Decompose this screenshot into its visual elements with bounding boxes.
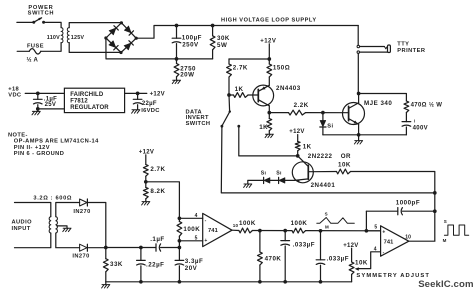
svg-text:5W: 5W <box>217 42 227 49</box>
transistor Q2 2N2222/2N4401 <box>292 162 313 183</box>
capacitor C9 .1uF 25V <box>34 98 43 100</box>
wire R3 leads <box>228 59 230 64</box>
node opamp input lower junction <box>178 246 182 250</box>
wire +12V drop to node <box>268 44 270 59</box>
svg-text:SYMMETRY ADJUST: SYMMETRY ADJUST <box>356 273 430 279</box>
transformer T1 primary winding <box>61 28 63 43</box>
op-amp U2 741 <box>381 226 409 256</box>
node HV rail at C1 <box>175 24 179 28</box>
wire bottom ground rail <box>106 281 352 283</box>
wire C5 leads <box>178 248 180 261</box>
node at C6 <box>283 229 287 233</box>
svg-text:Si: Si <box>327 123 333 129</box>
svg-text:PIN II- +12V: PIN II- +12V <box>14 145 50 151</box>
svg-text:100K: 100K <box>183 226 200 233</box>
bridge rectifier diamond wires <box>106 23 136 53</box>
wire center tap <box>57 226 67 228</box>
resistor R16 100K second <box>292 228 306 233</box>
node pin4 line junction <box>178 216 182 220</box>
node bridge top vertex <box>120 21 123 24</box>
wire HV rail top <box>177 25 359 27</box>
wire D9 to detector node <box>87 247 106 249</box>
svg-text:FAIRCHILD: FAIRCHILD <box>70 92 104 98</box>
node bias divider <box>144 180 148 184</box>
wire secondary bottom to bridge bottom vertex <box>69 43 121 53</box>
svg-text:33K: 33K <box>110 261 123 268</box>
capacitor C5 3.3uF 20V <box>175 259 184 261</box>
svg-text:I6VDC: I6VDC <box>141 108 160 114</box>
regulator U3 FAIRCHILD F7812 box <box>64 88 124 112</box>
wire feedback vertical <box>365 211 367 231</box>
svg-text:VDC: VDC <box>8 92 21 98</box>
wire U2 pin4 to wiper <box>358 252 381 269</box>
potentiometer wiper arrow <box>355 267 359 270</box>
ground below R13 <box>142 202 150 205</box>
capacitor C4 .1uF coupling <box>155 244 157 251</box>
svg-text:HIGH VOLTAGE LOOP SUPPLY: HIGH VOLTAGE LOOP SUPPLY <box>221 17 317 23</box>
svg-text:741: 741 <box>384 240 394 246</box>
node Q3 base junction <box>321 111 325 115</box>
wire R9 to base node <box>297 151 299 156</box>
wire C9 leads <box>37 93 39 99</box>
svg-text:22µF: 22µF <box>142 101 157 107</box>
terminal jack lower <box>357 51 360 54</box>
resistor R12 2.7K bias <box>143 165 148 177</box>
wire AC line bottom-left <box>17 50 29 52</box>
transistor Q1 collector <box>258 100 269 106</box>
resistor R13 8.2K bias <box>143 187 148 198</box>
diode D5 Si <box>320 120 326 127</box>
wire ground line to regulator <box>38 108 65 110</box>
ground at rail left end <box>105 282 107 285</box>
svg-text:25V: 25V <box>45 102 57 108</box>
svg-text:FUSE: FUSE <box>27 43 44 49</box>
svg-text:8.2K: 8.2K <box>150 188 165 195</box>
wire pot to rail <box>351 274 353 281</box>
wire HV rail down to jack <box>357 26 359 46</box>
svg-text:20V: 20V <box>185 265 198 272</box>
resistor R1 30K 5W <box>210 36 215 50</box>
resistor R2 2750 20W <box>174 64 179 77</box>
node at C10 <box>136 92 140 96</box>
wire C10 leads <box>137 93 139 99</box>
svg-text:2N4403: 2N4403 <box>276 85 301 92</box>
capacitor C8 1000pF <box>397 208 399 215</box>
svg-text:1K: 1K <box>235 86 244 93</box>
svg-text:30K: 30K <box>217 35 230 42</box>
wire audio input top <box>15 203 51 217</box>
svg-text:3.2Ω : 600Ω: 3.2Ω : 600Ω <box>33 196 72 202</box>
svg-text:2.2K: 2.2K <box>294 102 309 109</box>
resistor R11 33K <box>103 259 108 272</box>
node HV rail at R1 <box>211 24 215 28</box>
node feedback tap <box>365 229 369 233</box>
svg-text:150Ω: 150Ω <box>273 65 290 72</box>
capacitor C6 .033uF <box>281 240 290 242</box>
svg-text:1K: 1K <box>259 124 268 131</box>
wire Si diode top lead <box>322 113 324 121</box>
wire R2 top lead <box>176 59 178 64</box>
diode D4 bridge lower-right <box>124 43 131 50</box>
fuse F1 1/2 A <box>29 49 41 54</box>
svg-text:470Ω ½ W: 470Ω ½ W <box>411 101 443 108</box>
wire R2 to ground <box>176 77 178 80</box>
svg-text:M: M <box>443 238 447 243</box>
diode D6 Si left <box>264 178 270 184</box>
svg-text:+12V: +12V <box>289 129 304 135</box>
wire bridge positive output to HV rail <box>136 26 176 39</box>
node Q3 collector junction <box>357 92 361 96</box>
resistor R14 100K between inputs <box>177 222 182 237</box>
svg-text:5: 5 <box>195 236 198 242</box>
svg-text:AUDIO: AUDIO <box>12 220 33 226</box>
wire D8 to detector node <box>87 203 106 248</box>
wire right contact to Q2 base line <box>239 126 298 156</box>
transistor Q1 emitter with arrow <box>258 85 269 91</box>
wire opamp1 pin4 line <box>179 217 202 219</box>
resistor R5 1K base <box>234 93 249 98</box>
node rail at C6 <box>283 280 287 284</box>
svg-text:+12V: +12V <box>150 91 165 97</box>
node rail at C7 <box>319 280 323 284</box>
wire detector to coupling cap <box>106 247 156 249</box>
svg-text:5: 5 <box>374 225 377 231</box>
svg-text:100K: 100K <box>239 220 256 227</box>
wire secondary top to D8 <box>56 203 80 217</box>
node pin5 line junction <box>178 239 182 243</box>
switch S2 data invert blade <box>229 110 231 112</box>
svg-text:.1µF: .1µF <box>150 236 165 243</box>
svg-text:S: S <box>325 212 328 217</box>
wire R4 leads <box>268 59 270 64</box>
wire +12V to pot <box>351 248 353 262</box>
node Q3 emitter junction <box>357 133 361 137</box>
wire R16 to U2 pin5 <box>306 230 381 232</box>
transistor Q2 emitter with arrow <box>294 179 308 181</box>
svg-text:250V: 250V <box>182 41 199 48</box>
svg-text:+: + <box>204 238 207 244</box>
ground at diode pair <box>244 184 252 187</box>
node at 470K <box>258 229 262 233</box>
svg-text:100K: 100K <box>291 220 308 227</box>
wire R8 to C2 <box>405 113 407 122</box>
wire feedback right segment <box>402 210 434 212</box>
svg-text:10K: 10K <box>355 259 368 266</box>
svg-text:Sı: Sı <box>276 171 282 177</box>
wire regulator output <box>125 92 147 94</box>
wire fuse to transformer primary bottom <box>41 43 61 52</box>
wire between diodes <box>270 179 278 181</box>
svg-text:I: I <box>414 119 415 124</box>
svg-text:PIN 6 - GROUND: PIN 6 - GROUND <box>14 151 64 157</box>
wire C1 top lead <box>176 26 178 39</box>
transformer T2 primary <box>49 217 51 233</box>
switch S2 right contact <box>237 125 240 128</box>
svg-text:10: 10 <box>405 235 411 241</box>
wire C6 leads <box>284 231 286 241</box>
wire R12 to node <box>145 176 147 187</box>
transistor Q2 collector <box>308 171 313 173</box>
wire R15 to R16 <box>252 230 292 232</box>
svg-text:INPUT: INPUT <box>12 226 31 232</box>
svg-text:SeekIC.com: SeekIC.com <box>418 279 473 290</box>
wire jack tip to plug <box>360 46 385 48</box>
diode D9 1N270 bottom <box>80 244 87 251</box>
svg-text:400V: 400V <box>413 126 428 132</box>
svg-text:½ A: ½ A <box>27 56 39 63</box>
resistor R7 1K pulldown <box>267 119 272 131</box>
svg-text:+12V: +12V <box>343 243 358 249</box>
svg-text:470K: 470K <box>265 256 282 263</box>
transistor Q3 collector <box>349 103 359 109</box>
wire Q3 collector to R8 <box>359 94 407 102</box>
op-amp U1 741 <box>203 213 232 246</box>
svg-text:M: M <box>325 225 329 230</box>
wire Q1 collector to R6 to Q3 base <box>269 112 288 114</box>
node rail at R17 <box>258 280 262 284</box>
wire U2 pin5 lead <box>366 230 380 232</box>
resistor R15 100K <box>239 228 253 233</box>
node Q1 collector junction <box>267 111 271 115</box>
waveform square symbol <box>444 225 468 235</box>
ground below C9 <box>37 109 39 112</box>
svg-text:.033µF: .033µF <box>327 256 349 263</box>
wire +12V to R12 <box>145 155 147 165</box>
resistor R9 1K at Q2 <box>295 142 300 151</box>
wire R1 leads <box>212 26 214 36</box>
wire R11 leads <box>105 248 107 259</box>
svg-text:OR: OR <box>341 153 351 160</box>
node at C7 <box>319 229 323 233</box>
capacitor C10 .22uF 16VDC <box>133 98 142 100</box>
resistor R3 2.7K <box>227 64 232 77</box>
svg-text:2.7K: 2.7K <box>150 166 165 173</box>
svg-text:TTY: TTY <box>397 42 409 48</box>
wire jack to Q3 collector <box>357 53 359 93</box>
wire bridge negative output to ground rail <box>106 38 213 59</box>
svg-text:+12V: +12V <box>139 149 154 155</box>
svg-text:MJE 340: MJE 340 <box>364 100 392 107</box>
wire R5 to Q1 base <box>229 94 234 96</box>
svg-text:OP-AMPS ARE LM741CN-14: OP-AMPS ARE LM741CN-14 <box>14 139 99 145</box>
wire AC line top-left <box>17 21 34 23</box>
capacitor C2 400V <box>402 121 411 123</box>
ground below R2 <box>172 80 180 83</box>
diode D1 bridge upper-left <box>109 28 116 35</box>
wire emitter ground rail <box>323 134 407 136</box>
wire Q2 collector to R10 <box>313 171 336 173</box>
svg-text:IN270: IN270 <box>72 254 89 260</box>
svg-text:4: 4 <box>195 213 198 219</box>
node right bus at switch line <box>433 191 437 195</box>
node C9 bottom <box>36 107 40 111</box>
node detector junction <box>104 246 108 250</box>
switch S2 left contact <box>221 125 224 128</box>
wire R14 leads <box>178 218 180 221</box>
svg-text:.033µF: .033µF <box>293 242 315 249</box>
wire C3 leads <box>140 248 142 261</box>
svg-text:+12V: +12V <box>260 38 276 44</box>
node +12V rail Q1 <box>267 57 271 61</box>
wire left contact to output rail <box>221 126 434 193</box>
wire jack sleeve to plug <box>360 51 388 53</box>
wire R7 leads <box>268 113 270 119</box>
svg-text:10K: 10K <box>338 162 351 169</box>
wire +12V rail segment <box>229 58 269 60</box>
potentiometer R18 10K <box>349 262 354 274</box>
wire switch common from R3 node <box>228 95 231 111</box>
svg-text:F7812: F7812 <box>70 99 88 105</box>
node rail at C3 <box>139 280 143 284</box>
svg-text:2.7K: 2.7K <box>233 65 248 72</box>
wire audio input bottom <box>15 233 51 248</box>
switch S1 power switch <box>34 18 42 22</box>
waveform triangle symbol <box>317 218 355 224</box>
svg-text:PRINTER: PRINTER <box>397 48 425 54</box>
plug body TTY <box>388 45 391 53</box>
wire diode to ground stub <box>248 180 264 184</box>
node ground rail at C1 bottom <box>175 57 179 61</box>
capacitor C3 .22uF <box>137 259 146 261</box>
transformer T1 secondary winding <box>67 28 69 43</box>
node at C3 .22uF <box>139 246 143 250</box>
wire Q2 base diagonal <box>298 156 309 167</box>
ground at center tap <box>63 228 71 231</box>
ground below C10 <box>132 110 140 113</box>
capacitor C7 .033uF <box>316 259 325 261</box>
resistor R8 470 ohm 1/2W <box>404 101 409 113</box>
wire C2 bottom lead <box>405 127 407 135</box>
svg-text:NOTE-: NOTE- <box>8 132 28 138</box>
node R3 bottom / base network <box>227 93 231 97</box>
wire R10 to right bus <box>351 172 435 241</box>
wire C7 leads <box>320 231 322 260</box>
wire Q1 collector down <box>268 106 270 113</box>
diode D2 bridge upper-right <box>124 26 131 33</box>
resistor R17 470K <box>258 252 263 265</box>
svg-text:REGULATOR: REGULATOR <box>70 105 109 111</box>
wire feedback left segment <box>366 210 397 212</box>
svg-text:.22µF: .22µF <box>146 261 164 268</box>
node rail at C5 <box>178 280 182 284</box>
svg-text:SWITCH: SWITCH <box>28 11 55 17</box>
svg-text:741: 741 <box>208 228 218 234</box>
capacitor C1 100uF 250V <box>172 37 181 39</box>
wire Q2 emitter to diode pair <box>285 179 294 181</box>
wire U2 output <box>409 240 435 242</box>
wire R13 to ground <box>145 199 147 202</box>
wire C1 bottom lead <box>176 44 178 59</box>
transistor Q3 MJE340 <box>343 103 365 125</box>
resistor R4 150 ohm <box>267 64 272 77</box>
ground below R7 <box>265 134 273 137</box>
wire C4 to opamp node <box>161 247 180 249</box>
wire secondary bottom to D9 <box>56 233 80 248</box>
diode D3 bridge lower-left <box>109 41 116 48</box>
ground at Q3 emitter <box>358 135 360 141</box>
node bridge bottom vertex <box>119 51 122 54</box>
resistor R6 2.2K <box>289 110 306 115</box>
node bridge left vertex <box>104 36 107 39</box>
svg-text:Sı: Sı <box>261 171 267 177</box>
transistor Q3 emitter with arrow <box>349 119 359 125</box>
node right bus at feedback cap <box>433 209 437 213</box>
wire R17 leads <box>259 231 261 252</box>
wire U1 output <box>232 229 239 231</box>
svg-text:20W: 20W <box>180 72 194 79</box>
wire +12V to R9 <box>297 135 299 142</box>
wire bias to opamp pin 4 node <box>146 182 180 219</box>
svg-text:125V: 125V <box>71 35 85 41</box>
node at C9 <box>36 92 40 96</box>
node Q2 base junction <box>296 154 300 158</box>
wire switch to transformer primary top <box>44 22 62 27</box>
svg-text:3.3µF: 3.3µF <box>185 258 203 265</box>
transistor Q1 2N4403 <box>253 85 274 106</box>
svg-text:+: + <box>382 230 385 236</box>
svg-text:SWITCH: SWITCH <box>186 121 211 127</box>
node bridge right vertex <box>135 37 138 40</box>
wire +18 input <box>25 92 64 94</box>
transformer T2 secondary <box>56 217 58 233</box>
svg-text:1000pF: 1000pF <box>396 199 420 206</box>
diode D7 Si right <box>279 178 285 184</box>
wire opamp1 pin5 line <box>179 240 202 242</box>
svg-text:2N4401: 2N4401 <box>311 182 336 189</box>
terminal jack upper <box>357 45 360 48</box>
wire secondary top to bridge <box>69 23 121 28</box>
svg-text:S: S <box>444 219 447 224</box>
svg-text:1K: 1K <box>303 143 312 150</box>
diode D8 1N270 top <box>80 199 87 206</box>
svg-text:2N2222: 2N2222 <box>308 153 333 160</box>
resistor R10 10K <box>337 169 351 174</box>
svg-text:10: 10 <box>233 223 239 228</box>
svg-text:110V: 110V <box>47 35 60 41</box>
svg-text:IN270: IN270 <box>73 209 90 215</box>
wire Si diode bottom lead <box>322 127 324 134</box>
